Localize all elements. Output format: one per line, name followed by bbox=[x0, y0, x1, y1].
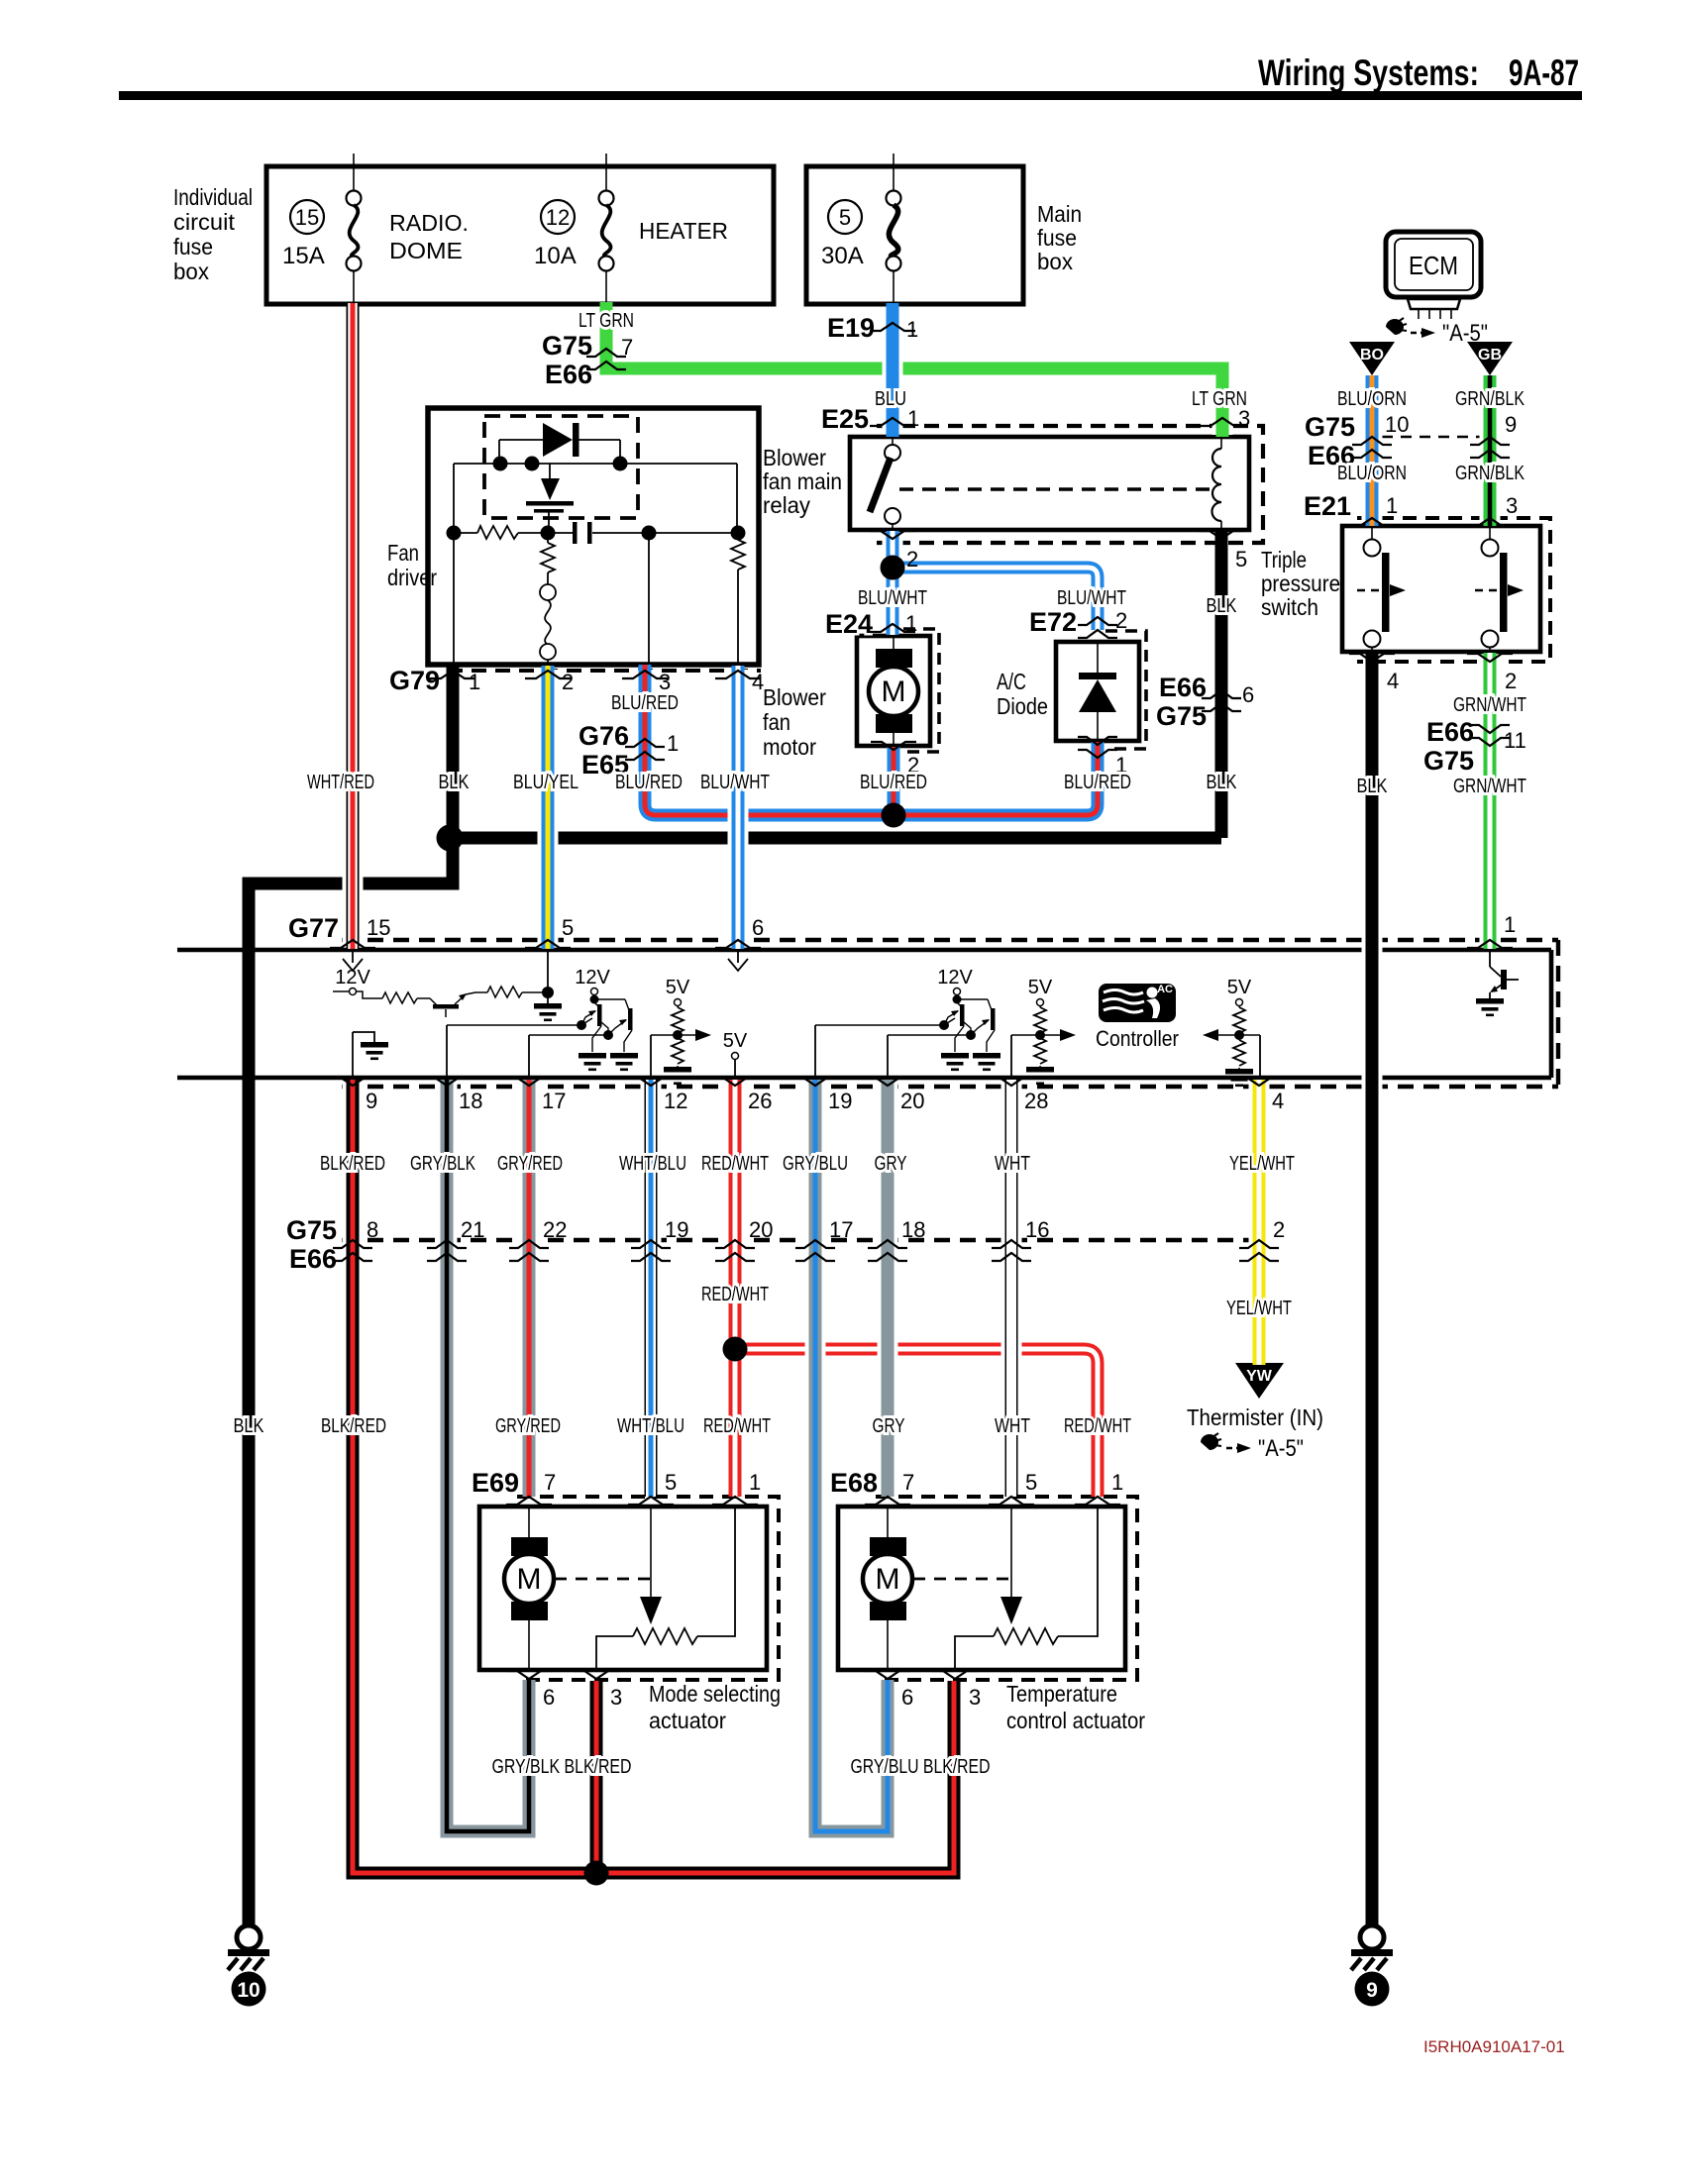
connector G75 E66 dashed link right bbox=[1382, 436, 1480, 439]
svg-text:E19: E19 bbox=[827, 313, 875, 343]
ECM output triangle BO bbox=[1349, 342, 1395, 375]
svg-text:pressure: pressure bbox=[1261, 571, 1340, 596]
svg-text:RADIO.: RADIO. bbox=[389, 210, 469, 236]
connector G79 marks bbox=[389, 666, 764, 695]
svg-text:GB: GB bbox=[1478, 347, 1502, 364]
svg-text:E69: E69 bbox=[472, 1468, 519, 1498]
svg-text:6: 6 bbox=[1242, 682, 1254, 707]
svg-text:4: 4 bbox=[1272, 1089, 1284, 1113]
svg-text:2: 2 bbox=[1273, 1217, 1285, 1242]
fan driver resistor R1 bbox=[454, 526, 548, 539]
svg-text:YEL/WHT: YEL/WHT bbox=[1226, 1298, 1292, 1319]
controller AC icon bbox=[1099, 984, 1176, 1022]
svg-text:BLU/YEL: BLU/YEL bbox=[513, 772, 579, 793]
individual circuit fuse box bbox=[266, 166, 774, 304]
ground 9 symbol bbox=[1351, 1925, 1393, 2007]
svg-text:HEATER: HEATER bbox=[639, 218, 728, 244]
svg-text:3: 3 bbox=[1238, 406, 1250, 431]
controller pin19 wire to darlington bbox=[815, 1018, 955, 1076]
svg-text:Individual: Individual bbox=[173, 184, 253, 210]
svg-text:5: 5 bbox=[1235, 547, 1247, 572]
controller pin12 wire arrow bbox=[651, 1029, 711, 1076]
svg-text:BLU/RED: BLU/RED bbox=[1064, 772, 1131, 793]
svg-text:WHT/BLU: WHT/BLU bbox=[617, 1415, 684, 1437]
fan driver junction dots upper bbox=[493, 457, 628, 471]
wire BLU fuse 5 to relay pin1 bbox=[883, 303, 903, 437]
mode actuator dashed link bbox=[555, 1578, 651, 1581]
svg-text:A/C: A/C bbox=[997, 669, 1026, 694]
controller resistor pin15 b bbox=[475, 987, 548, 997]
svg-text:I5RH0A910A17-01: I5RH0A910A17-01 bbox=[1423, 2037, 1565, 2056]
svg-text:DOME: DOME bbox=[389, 238, 463, 263]
svg-text:1: 1 bbox=[905, 611, 917, 636]
mode selecting actuator box bbox=[479, 1507, 767, 1670]
svg-text:M: M bbox=[882, 676, 906, 708]
A/C diode pin1 mark bbox=[1078, 737, 1127, 778]
wire BLU/YEL fan driver pin2 to controller pin5 bbox=[538, 666, 559, 949]
svg-text:ECM: ECM bbox=[1409, 251, 1458, 280]
wire LT GRN from fuse 12 to relay pin3 bbox=[606, 302, 1222, 437]
wire labels below controller bbox=[320, 1153, 1295, 1175]
svg-text:RED/WHT: RED/WHT bbox=[703, 1415, 771, 1437]
controller darlington left transistors bbox=[579, 999, 638, 1071]
svg-text:circuit: circuit bbox=[173, 209, 236, 235]
svg-text:GRN/WHT: GRN/WHT bbox=[1453, 694, 1526, 716]
mode selecting actuator label bbox=[649, 1681, 781, 1733]
svg-text:15A: 15A bbox=[282, 243, 325, 269]
controller pin9 ground bbox=[353, 1032, 388, 1076]
controller 5V pull-up pin12 bbox=[664, 977, 691, 1085]
svg-text:box: box bbox=[1037, 249, 1073, 274]
wire WHT/BLU controller pin12 to mode actuator pin5 bbox=[641, 1080, 662, 1497]
svg-text:1: 1 bbox=[469, 670, 480, 694]
individual circuit fuse box label bbox=[173, 184, 253, 284]
connector E25 marks bbox=[821, 404, 919, 434]
svg-text:LT GRN: LT GRN bbox=[579, 310, 634, 332]
connector E19 marks bbox=[827, 313, 918, 343]
controller 5V source pin26 bbox=[723, 1030, 748, 1076]
thermistor A-5 reference eye bbox=[1201, 1433, 1304, 1462]
fan driver node row upper wire bbox=[454, 464, 737, 533]
blower fan motor box bbox=[857, 636, 930, 746]
svg-text:5V: 5V bbox=[723, 1030, 748, 1052]
mode actuator potentiometer bbox=[596, 1507, 735, 1670]
svg-text:Controller: Controller bbox=[1096, 1026, 1179, 1051]
svg-text:YEL/WHT: YEL/WHT bbox=[1229, 1153, 1295, 1175]
svg-text:12V: 12V bbox=[937, 967, 973, 988]
svg-text:5: 5 bbox=[839, 205, 851, 230]
svg-text:BLU/WHT: BLU/WHT bbox=[700, 772, 770, 793]
ECM output triangle GB bbox=[1467, 342, 1513, 375]
temp actuator motor bbox=[863, 1507, 912, 1670]
fan driver inner dashed box bbox=[484, 416, 638, 518]
svg-text:18: 18 bbox=[901, 1217, 925, 1242]
controller pin15 entry arrow bbox=[343, 952, 363, 971]
fuse 15 symbol bbox=[347, 154, 362, 304]
wire GRN/BLK ECM GB to TPS pin3 bbox=[1480, 375, 1501, 526]
ground 10 symbol bbox=[228, 1925, 269, 2007]
svg-text:BLK: BLK bbox=[439, 772, 471, 793]
svg-text:BLK: BLK bbox=[1207, 595, 1238, 617]
svg-text:AC: AC bbox=[1157, 984, 1173, 995]
wire BLK/RED controller pin9 to actuator bus bbox=[353, 1080, 954, 1873]
header rule bbox=[119, 91, 1582, 100]
svg-text:GRY/BLK BLK/RED: GRY/BLK BLK/RED bbox=[492, 1756, 632, 1778]
TPS pin2 mark bbox=[1467, 654, 1517, 693]
ECM A-5 reference eye bbox=[1386, 318, 1488, 347]
wire YEL/WHT controller pin4 to thermistor bbox=[1249, 1080, 1270, 1365]
svg-text:3: 3 bbox=[610, 1685, 622, 1710]
svg-text:16: 16 bbox=[1025, 1217, 1049, 1242]
main fuse box bbox=[806, 166, 1023, 304]
svg-text:3: 3 bbox=[659, 670, 671, 694]
controller 5V source pin4 bbox=[1225, 977, 1253, 1087]
controller resistor pin15 a bbox=[382, 992, 417, 1003]
svg-text:fan main: fan main bbox=[763, 468, 842, 494]
controller pin28 wire arrow bbox=[1011, 1029, 1076, 1076]
svg-text:E66: E66 bbox=[289, 1244, 337, 1274]
svg-text:GRY/BLU BLK/RED: GRY/BLU BLK/RED bbox=[851, 1756, 991, 1778]
controller 5V pull-up pin28 bbox=[1026, 977, 1054, 1085]
svg-text:28: 28 bbox=[1024, 1089, 1048, 1113]
controller pin5 node ground bbox=[534, 952, 562, 1021]
svg-text:15: 15 bbox=[367, 915, 390, 940]
svg-text:BLU/WHT: BLU/WHT bbox=[1057, 587, 1126, 609]
connector G77 dashed wrap right bbox=[1556, 940, 1560, 1087]
ECM box bbox=[1386, 232, 1481, 319]
svg-text:4: 4 bbox=[1387, 669, 1399, 693]
pressure switch 1 bbox=[1357, 526, 1406, 652]
connector E69 marks bbox=[472, 1468, 761, 1505]
svg-text:22: 22 bbox=[543, 1217, 567, 1242]
svg-text:WHT/BLU: WHT/BLU bbox=[619, 1153, 686, 1175]
svg-text:2: 2 bbox=[1505, 669, 1517, 693]
svg-text:19: 19 bbox=[665, 1217, 688, 1242]
svg-text:7: 7 bbox=[544, 1470, 556, 1495]
svg-text:11: 11 bbox=[1504, 728, 1526, 753]
wire GRY/BLK controller pin18 U-turn to mode actuator pin6 bbox=[447, 1080, 529, 1831]
svg-text:fan: fan bbox=[763, 709, 790, 735]
svg-text:GRY/BLU: GRY/BLU bbox=[783, 1153, 848, 1175]
svg-text:10: 10 bbox=[237, 1979, 260, 2002]
svg-text:Temperature: Temperature bbox=[1006, 1681, 1117, 1707]
svg-text:9A-87: 9A-87 bbox=[1509, 52, 1579, 93]
svg-text:9: 9 bbox=[366, 1089, 377, 1113]
wire labels mid lower row bbox=[234, 1415, 1132, 1437]
svg-text:1: 1 bbox=[1504, 912, 1516, 937]
svg-text:BLU/ORN: BLU/ORN bbox=[1337, 388, 1407, 410]
main fuse box label bbox=[1037, 201, 1082, 274]
svg-text:BLK/RED: BLK/RED bbox=[320, 1153, 385, 1175]
A/C diode symbol bbox=[1079, 642, 1116, 741]
fuse 5 circled number bbox=[828, 200, 862, 234]
svg-text:Mode selecting: Mode selecting bbox=[649, 1681, 781, 1707]
svg-text:G77: G77 bbox=[288, 913, 339, 943]
svg-text:GRN/BLK: GRN/BLK bbox=[1455, 388, 1526, 410]
wire WHT/RED fuse 15 to controller pin15 bbox=[343, 303, 364, 949]
wire BLU/WHT relay pin2 branch bbox=[886, 531, 1098, 630]
A/C diode connector E72 dashed box bbox=[1105, 631, 1146, 749]
temperature control actuator box bbox=[838, 1507, 1125, 1670]
connector E72 marks bbox=[1029, 607, 1127, 638]
svg-text:6: 6 bbox=[752, 915, 764, 940]
wire GRY/RED controller pin17 to mode actuator pin7 bbox=[519, 1080, 540, 1497]
temperature control actuator label bbox=[1006, 1681, 1145, 1733]
svg-text:BLK: BLK bbox=[234, 1415, 265, 1437]
svg-text:20: 20 bbox=[749, 1217, 773, 1242]
wire GRN/WHT TPS pin2 to controller pin1 bbox=[1480, 653, 1501, 949]
blower fan motor M bbox=[869, 636, 918, 746]
svg-text:Blower: Blower bbox=[763, 445, 826, 470]
svg-text:12: 12 bbox=[546, 205, 570, 230]
relay pin5 mark bbox=[1199, 531, 1247, 572]
svg-text:E68: E68 bbox=[830, 1468, 878, 1498]
svg-text:BO: BO bbox=[1360, 347, 1384, 364]
svg-text:1: 1 bbox=[749, 1470, 761, 1495]
triple pressure switch connector E21 dashed box bbox=[1357, 518, 1550, 662]
svg-text:GRY/RED: GRY/RED bbox=[497, 1153, 563, 1175]
svg-text:G75: G75 bbox=[1423, 746, 1474, 776]
wire BLU/RED bus fan driver pin3 to A/C diode pin1 bbox=[645, 665, 1098, 815]
svg-text:9: 9 bbox=[1505, 412, 1517, 437]
svg-text:"A-5": "A-5" bbox=[1258, 1435, 1304, 1462]
svg-text:Thermister (IN): Thermister (IN) bbox=[1187, 1404, 1323, 1430]
temp actuator bottom pin marks bbox=[865, 1671, 981, 1710]
relay pin2 mark bbox=[870, 531, 918, 572]
svg-text:17: 17 bbox=[829, 1217, 853, 1242]
svg-text:12V: 12V bbox=[335, 967, 370, 988]
svg-text:G79: G79 bbox=[389, 666, 440, 695]
svg-text:BLK/RED: BLK/RED bbox=[321, 1415, 386, 1437]
svg-text:3: 3 bbox=[1506, 493, 1518, 518]
blower fan main relay label bbox=[763, 445, 842, 518]
fuse 5 symbol bbox=[887, 154, 901, 304]
wire BLU/WHT to blower fan motor pin1 bbox=[883, 565, 903, 635]
svg-text:6: 6 bbox=[543, 1685, 555, 1710]
svg-text:1: 1 bbox=[907, 406, 919, 431]
wire WHT controller pin28 to temp actuator pin5 bbox=[1001, 1080, 1022, 1497]
svg-text:E66: E66 bbox=[1159, 673, 1207, 702]
junction dot BLU/RED bus at motor pin2 bbox=[882, 803, 906, 828]
wire BLK/RED mode actuator pin3 bbox=[586, 1681, 607, 1873]
A/C diode box bbox=[1056, 642, 1139, 741]
fan driver pin1 internal wire bbox=[453, 533, 455, 665]
fan driver junction dots lower bbox=[447, 526, 746, 541]
svg-text:5: 5 bbox=[665, 1470, 677, 1495]
connector E66 G75 TPS marks bbox=[1423, 717, 1526, 776]
controller 12V source pin15 bbox=[333, 967, 382, 998]
svg-text:21: 21 bbox=[461, 1217, 484, 1242]
controller pin1 transistor to ground bbox=[1476, 952, 1519, 1016]
controller darlington right 12V bbox=[937, 967, 973, 1004]
svg-text:30A: 30A bbox=[821, 243, 864, 269]
svg-text:Diode: Diode bbox=[997, 693, 1048, 719]
wire BLU/RED blower fan motor pin2 bbox=[884, 747, 904, 815]
mode selecting actuator connector E69 dashed box bbox=[517, 1497, 779, 1680]
svg-text:BLU/ORN: BLU/ORN bbox=[1337, 463, 1407, 484]
svg-text:switch: switch bbox=[1261, 594, 1318, 620]
svg-text:17: 17 bbox=[542, 1089, 566, 1113]
fan driver capacitor bbox=[548, 522, 738, 544]
black bus horizontal bbox=[450, 832, 1221, 845]
junction dot relay pin2 bbox=[881, 556, 905, 580]
fan driver pin3 internal wire bbox=[648, 533, 650, 665]
controller pin20 wire to darlington bbox=[888, 1030, 976, 1076]
svg-text:control actuator: control actuator bbox=[1006, 1708, 1145, 1733]
relay switch bbox=[870, 437, 900, 530]
relay internal dashed link bbox=[899, 487, 1210, 490]
svg-text:5V: 5V bbox=[1227, 977, 1252, 998]
svg-text:GRN/BLK: GRN/BLK bbox=[1455, 463, 1526, 484]
svg-text:12V: 12V bbox=[575, 967, 610, 988]
mode actuator motor bbox=[504, 1507, 554, 1670]
svg-text:Main: Main bbox=[1037, 201, 1082, 227]
svg-text:9: 9 bbox=[1366, 1979, 1378, 2002]
controller box top edge bbox=[177, 948, 1551, 953]
svg-text:1: 1 bbox=[906, 317, 918, 342]
svg-text:M: M bbox=[517, 1563, 542, 1596]
triple pressure switch label bbox=[1261, 547, 1340, 620]
svg-text:M: M bbox=[876, 1563, 900, 1596]
svg-text:5V: 5V bbox=[666, 977, 690, 998]
svg-text:Fan: Fan bbox=[387, 540, 419, 566]
svg-text:GRY: GRY bbox=[873, 1415, 905, 1437]
wire BLU/WHT fan driver pin4 to controller pin6 bbox=[728, 666, 749, 949]
relay pin3 mark bbox=[1200, 406, 1250, 431]
fan driver box bbox=[428, 408, 759, 665]
svg-text:BLU: BLU bbox=[875, 388, 906, 410]
svg-text:7: 7 bbox=[902, 1470, 914, 1495]
svg-text:E24: E24 bbox=[825, 609, 873, 639]
svg-text:BLU/WHT: BLU/WHT bbox=[858, 587, 927, 609]
connector E21 marks bbox=[1304, 491, 1518, 526]
fuse 12 circled number bbox=[541, 200, 575, 234]
connector G77 bottom pin marks bbox=[330, 1078, 1284, 1113]
fan driver diode bbox=[499, 423, 620, 464]
svg-text:E21: E21 bbox=[1304, 491, 1351, 521]
svg-text:Blower: Blower bbox=[763, 684, 826, 710]
svg-text:RED/WHT: RED/WHT bbox=[1064, 1415, 1131, 1437]
controller pin4 wire arrow left bbox=[1203, 1029, 1260, 1076]
svg-text:WHT: WHT bbox=[995, 1415, 1030, 1437]
svg-text:Wiring Systems:: Wiring Systems: bbox=[1258, 52, 1479, 93]
page header title bbox=[1258, 52, 1579, 93]
controller darlington left 12V bbox=[575, 967, 610, 1004]
connector G75 E66 ECM marks bbox=[1305, 412, 1517, 470]
svg-text:G75: G75 bbox=[542, 331, 592, 361]
svg-text:E66: E66 bbox=[545, 360, 592, 389]
svg-text:RED/WHT: RED/WHT bbox=[701, 1153, 769, 1175]
connector E24 marks bbox=[825, 609, 917, 639]
svg-text:GRY/RED: GRY/RED bbox=[495, 1415, 561, 1437]
controller transistor Q1 bbox=[417, 992, 475, 1017]
triple pressure switch box bbox=[1342, 526, 1540, 652]
svg-text:E66: E66 bbox=[1426, 717, 1474, 747]
temperature control actuator connector E68 dashed box bbox=[876, 1497, 1137, 1680]
blower fan motor pin2 mark bbox=[871, 742, 919, 778]
controller pin6 entry arrow bbox=[728, 952, 748, 971]
temp actuator potentiometer bbox=[955, 1507, 1098, 1670]
svg-text:E25: E25 bbox=[821, 404, 869, 434]
svg-text:actuator: actuator bbox=[649, 1708, 726, 1733]
svg-text:GRN/WHT: GRN/WHT bbox=[1453, 776, 1526, 797]
controller pin17 wire to darlington bbox=[529, 1030, 613, 1076]
svg-text:10A: 10A bbox=[534, 243, 577, 269]
svg-text:BLK: BLK bbox=[1207, 772, 1238, 793]
thermistor YW triangle bbox=[1235, 1363, 1284, 1399]
svg-text:1: 1 bbox=[1386, 493, 1398, 518]
connector E66 G75 diode side marks bbox=[1156, 673, 1254, 731]
svg-text:G75: G75 bbox=[286, 1215, 337, 1245]
svg-text:WHT: WHT bbox=[995, 1153, 1030, 1175]
svg-text:YW: YW bbox=[1246, 1368, 1273, 1385]
fuse 15 circled number bbox=[290, 200, 324, 234]
svg-text:motor: motor bbox=[763, 734, 816, 760]
svg-text:box: box bbox=[173, 259, 209, 284]
svg-text:relay: relay bbox=[763, 492, 810, 518]
svg-text:5V: 5V bbox=[1028, 977, 1053, 998]
svg-text:Triple: Triple bbox=[1261, 547, 1307, 572]
svg-text:8: 8 bbox=[367, 1217, 378, 1242]
svg-text:10: 10 bbox=[1385, 412, 1409, 437]
wire BLU/ORN ECM BO to TPS pin1 bbox=[1362, 375, 1383, 526]
pressure switch 2 bbox=[1475, 526, 1524, 652]
svg-text:2: 2 bbox=[1115, 608, 1127, 633]
connector G77 marks bbox=[288, 912, 1516, 948]
svg-text:12: 12 bbox=[664, 1089, 687, 1113]
A/C diode label bbox=[997, 669, 1048, 719]
svg-text:G75: G75 bbox=[1156, 701, 1207, 731]
fan driver label bbox=[387, 540, 437, 590]
svg-text:BLU/RED: BLU/RED bbox=[611, 692, 679, 714]
svg-text:E72: E72 bbox=[1029, 607, 1077, 637]
svg-text:26: 26 bbox=[748, 1089, 772, 1113]
blower fan main relay box bbox=[850, 437, 1249, 530]
black wire relay pin5 bbox=[1215, 530, 1228, 838]
connector G75 E66 second row dashed line bbox=[342, 1238, 1259, 1242]
wire RED/WHT branch to temp actuator pin1 bbox=[735, 1349, 1098, 1497]
svg-text:15: 15 bbox=[295, 205, 319, 230]
fan driver resistor R2 vertical bbox=[540, 533, 556, 665]
temp actuator wiper arrow bbox=[1000, 1507, 1022, 1624]
junction dot RED/WHT branch bbox=[723, 1337, 748, 1362]
svg-text:2: 2 bbox=[562, 670, 574, 694]
connector G75 E66 fuse marks bbox=[542, 331, 633, 389]
svg-text:WHT/RED: WHT/RED bbox=[307, 772, 374, 793]
mode actuator bottom pin marks bbox=[506, 1671, 622, 1710]
svg-text:6: 6 bbox=[901, 1685, 913, 1710]
svg-text:G75: G75 bbox=[1305, 412, 1355, 442]
svg-text:3: 3 bbox=[969, 1685, 981, 1710]
svg-text:driver: driver bbox=[387, 565, 437, 590]
controller box bottom edge bbox=[177, 1076, 1551, 1081]
connector G76 E65 marks bbox=[579, 721, 679, 780]
controller darlington right transistors bbox=[941, 999, 1000, 1071]
svg-text:BLU/RED: BLU/RED bbox=[615, 772, 683, 793]
connector G79 dashed row bbox=[448, 669, 761, 673]
junction dot black bus bbox=[437, 825, 464, 852]
svg-text:GRY/BLK: GRY/BLK bbox=[410, 1153, 476, 1175]
wire GRY controller pin20 to temp actuator pin7 bbox=[878, 1080, 898, 1497]
svg-text:fuse: fuse bbox=[173, 234, 213, 260]
wire labels row above black bus bbox=[307, 772, 1237, 793]
fuse 15 name RADIO. DOME bbox=[389, 210, 469, 263]
controller box right edge bbox=[1549, 950, 1554, 1078]
wire GRY/BLU controller pin19 U-turn to temp actuator pin6 bbox=[815, 1080, 888, 1831]
TPS pin4 mark bbox=[1349, 654, 1399, 693]
svg-text:19: 19 bbox=[828, 1089, 852, 1113]
svg-text:1: 1 bbox=[1111, 1470, 1123, 1495]
